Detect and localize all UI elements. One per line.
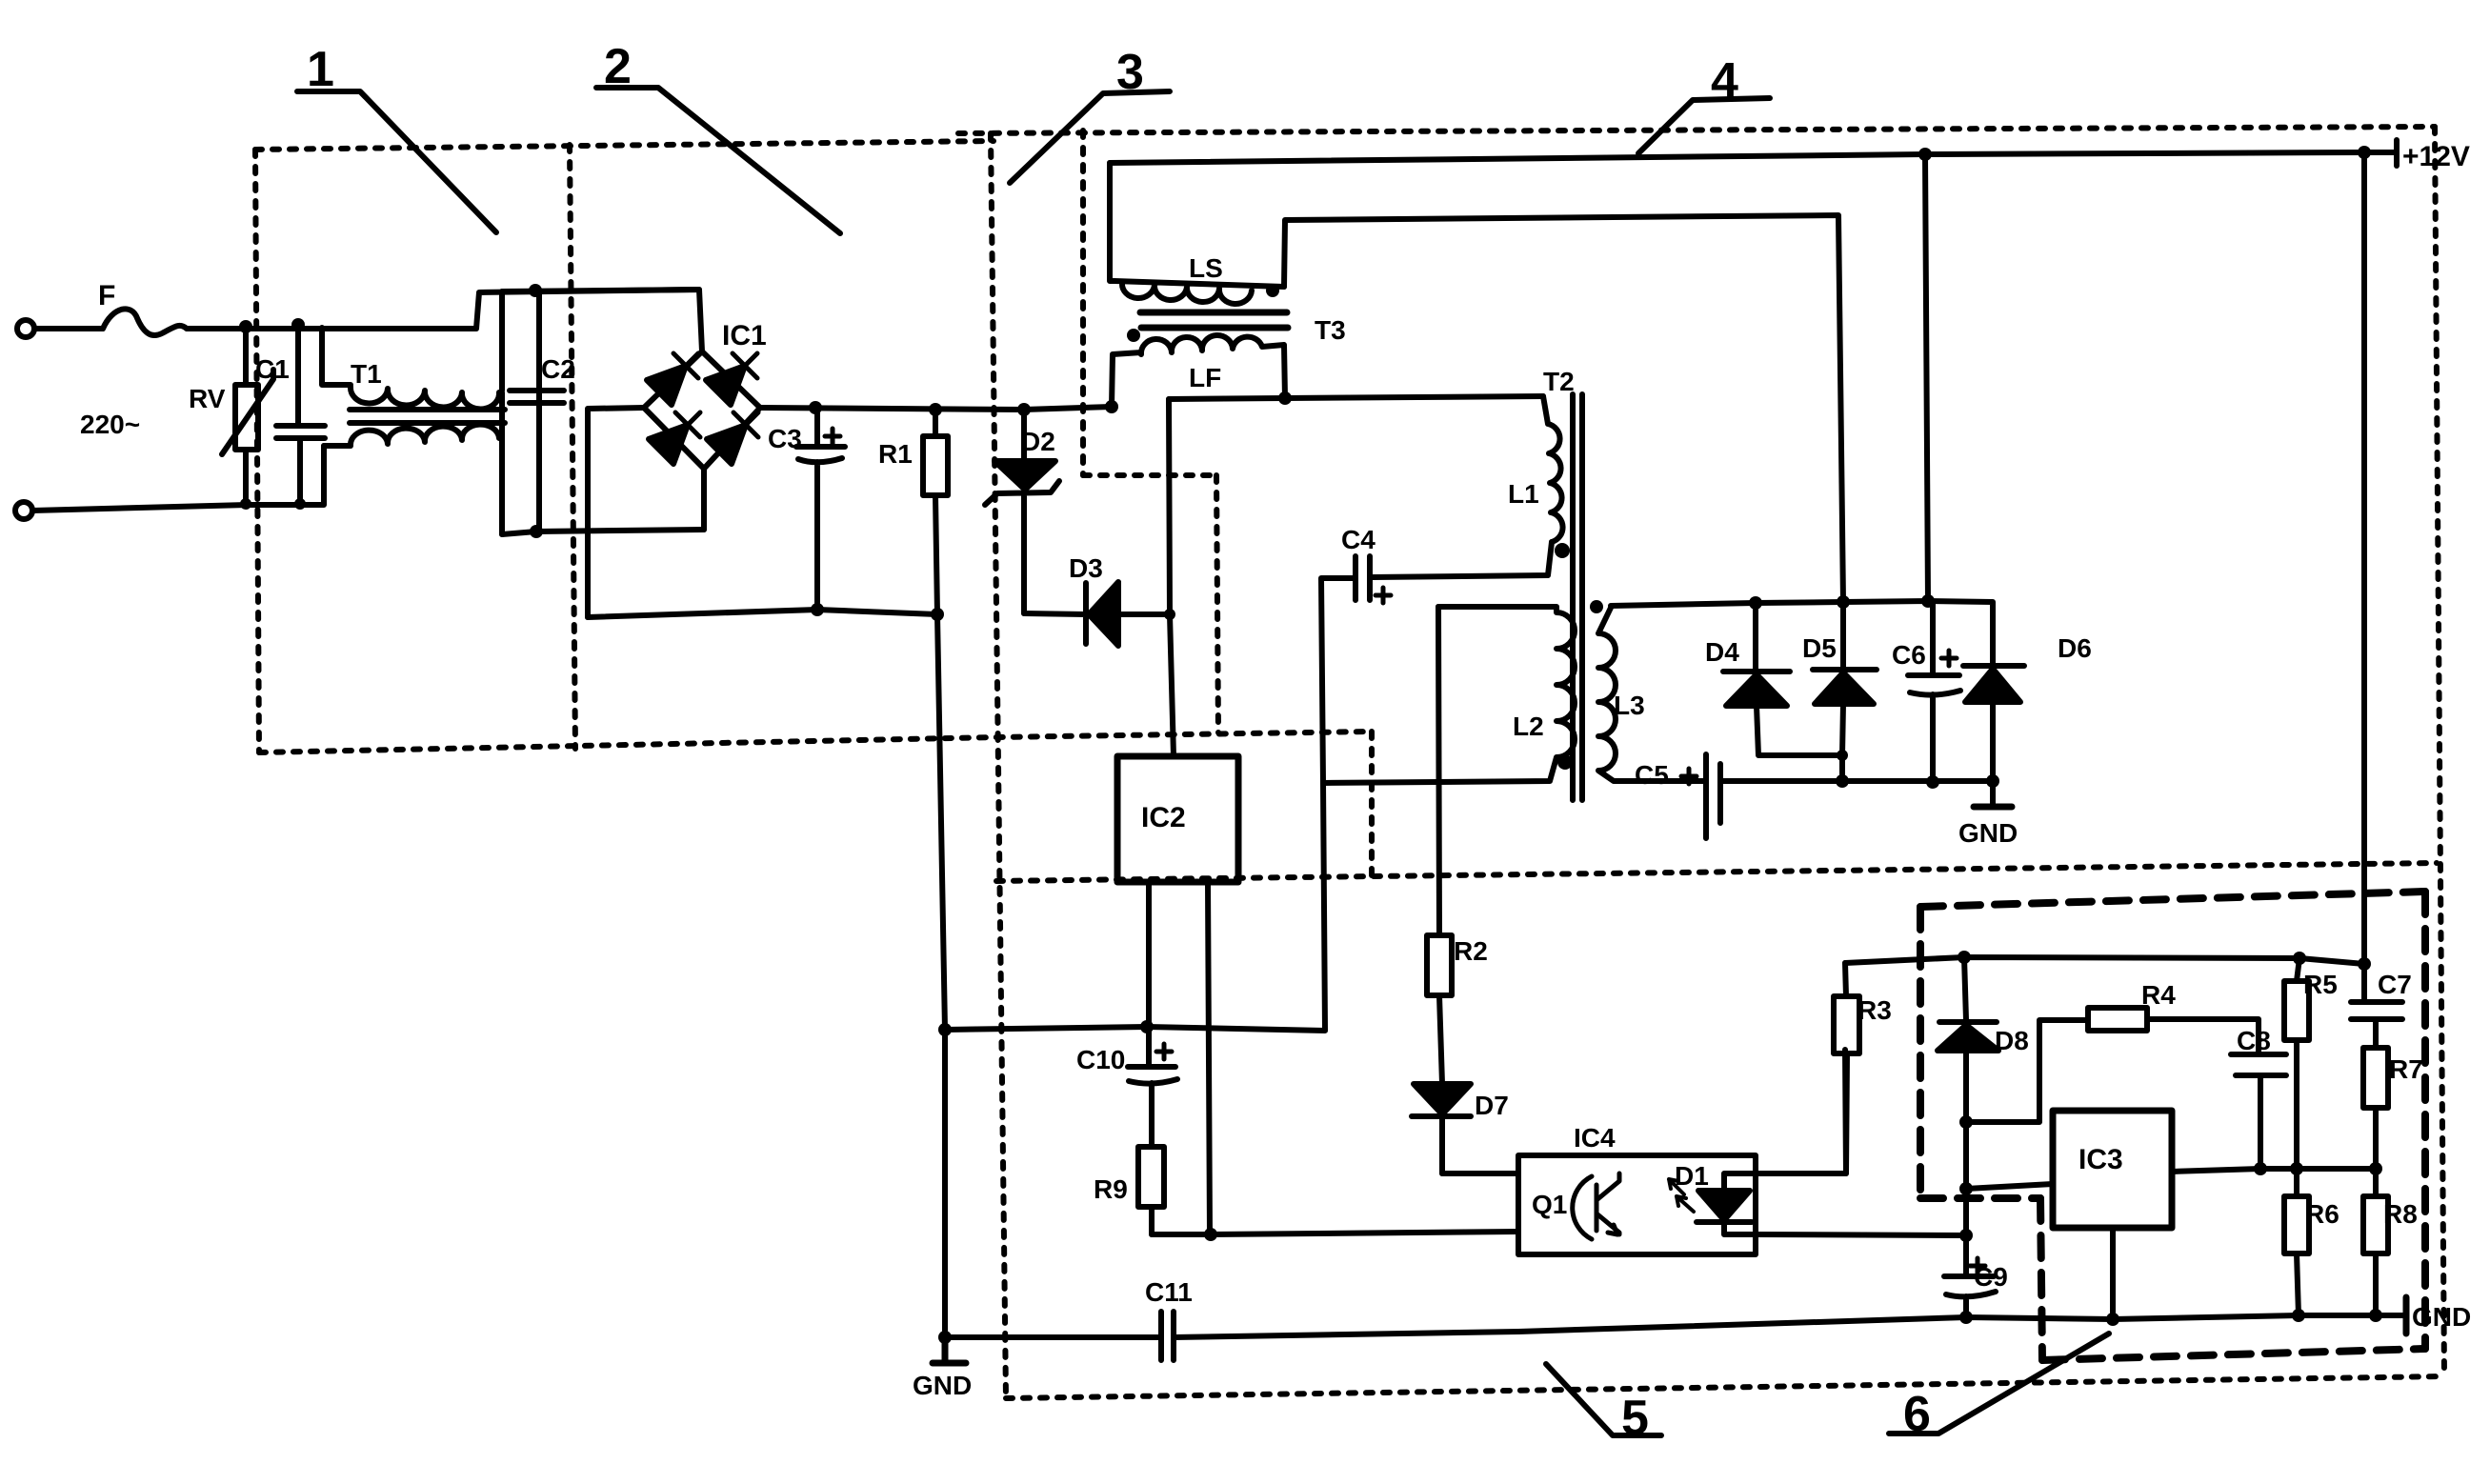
block 4 dashed staircase lower vertical [1369,732,1375,877]
input terminal top [17,320,34,337]
label 4 leader [1638,98,1770,153]
block 6 heavy dashed bottom edge [2042,1349,2425,1360]
svg-text:L2: L2 [1513,712,1544,741]
svg-text:R6: R6 [2305,1199,2339,1229]
resistor R9 [1138,1147,1164,1234]
IC3 right pin [2172,1169,2376,1172]
svg-text:C6: C6 [1892,640,1926,670]
capacitor C3 [796,408,845,610]
choke T1 bottom winding [324,425,499,446]
vertical D3/IC2 riser [1169,399,1174,756]
C9 plus sign [1970,1258,1985,1273]
node C5 D5 [1836,774,1849,788]
T3 winding LF [1112,335,1285,407]
capacitor C1 [276,325,325,504]
T3 winding LS [1110,163,1284,304]
svg-text:C8: C8 [2237,1026,2271,1055]
node GND rail C9 [1959,1311,1973,1324]
node GND rail left [938,1331,952,1344]
wire L2 top to R2 [1438,607,1439,935]
fuse F [34,309,187,335]
node bus R1 [929,403,942,416]
T2 L1 bottom lead with C4 [1372,542,1552,577]
capacitor C10 [1128,1067,1177,1147]
svg-text:220~: 220~ [80,410,140,439]
node GND rail IC3 [2106,1313,2119,1326]
C5 plus sign [1681,769,1697,784]
wire bridge bottom vertex down [701,469,707,530]
block 6 heavy dashed left edge upper [1917,907,1924,1198]
svg-text:F: F [98,280,115,311]
wire bottom input [32,446,324,511]
node D4 top [1749,596,1762,610]
svg-text:R7: R7 [2389,1054,2423,1084]
IC2 right pin riser [1208,882,1210,1234]
block 3+4 dashed top edge [958,127,2435,133]
node GND rail R6 [2292,1309,2305,1322]
node GND rail R8 [2369,1309,2382,1322]
svg-text:D2: D2 [1021,427,1055,456]
svg-text:D8: D8 [1995,1026,2029,1055]
D1 light arrows [1669,1179,1694,1212]
svg-text:+12V: +12V [2402,141,2470,172]
wire C2 bottom [502,530,704,534]
wire D1 cathode to C9 node [1756,1234,1966,1235]
block 4 dashed staircase vertical [1216,475,1218,732]
svg-text:L1: L1 [1508,479,1539,509]
node R5 R6 [2290,1162,2303,1175]
label 1 leader [297,91,496,232]
node +12V C6 tap [1918,148,1932,161]
svg-text:C1: C1 [255,354,290,384]
node C7 top [2358,957,2371,971]
svg-text:GND: GND [2412,1302,2471,1332]
svg-text:T3: T3 [1315,315,1346,345]
svg-text:4: 4 [1711,53,1738,109]
capacitor C2 [502,291,564,534]
node R9 IC2 [1204,1228,1217,1241]
resistor R4 [2088,1008,2259,1053]
label 2 leader [596,88,840,233]
svg-text:D3: D3 [1069,553,1103,583]
wire D1 anode to R3 [1756,1050,1846,1173]
block 4 dashed staircase step [1083,472,1216,478]
choke T1 top winding [322,328,499,409]
phase dot LS [1266,284,1279,297]
node D8 R4 ref [1959,1115,1973,1129]
svg-text:D4: D4 [1705,637,1739,667]
resistor R3 [1834,963,1859,1173]
node C10 top [1140,1020,1154,1033]
svg-text:L3: L3 [1614,691,1645,720]
svg-text:C3: C3 [768,424,802,453]
block 1 / block 2 dashed divider [570,145,575,749]
svg-text:R1: R1 [878,439,913,469]
svg-text:GND: GND [913,1371,972,1400]
svg-text:C4: C4 [1341,525,1376,554]
diode D7 [1414,1084,1471,1114]
svg-text:C2: C2 [541,354,575,384]
svg-text:C7: C7 [2378,970,2412,999]
svg-text:5: 5 [1621,1391,1649,1446]
feedback wire from C4 node [945,783,1325,1031]
svg-text:R4: R4 [2141,980,2176,1010]
svg-text:3: 3 [1116,45,1144,100]
svg-text:D1: D1 [1675,1161,1709,1191]
svg-text:2: 2 [604,39,632,94]
diode D5 [1815,672,1874,704]
phase dot L1 [1555,543,1570,558]
node D3 left riser [1164,609,1175,620]
label 3 leader [1010,91,1170,183]
C6 plus sign [1941,651,1957,666]
svg-text:D5: D5 [1802,633,1837,663]
wire AC2 vertical to bridge left [588,408,644,617]
svg-text:IC1: IC1 [722,320,767,351]
svg-text:T1: T1 [351,359,382,389]
block 6 heavy dashed right edge [2421,892,2429,1349]
resistor R1 [923,410,948,614]
wire D8 ref node to R4 [1966,1020,2088,1122]
C10 plus sign [1156,1044,1172,1059]
svg-text:Q1: Q1 [1532,1190,1567,1219]
IC3 bottom pin [2110,1228,2116,1319]
label 6 leader [1889,1334,2109,1434]
block 6 heavy dashed step [1920,1194,2040,1202]
svg-text:IC2: IC2 [1141,802,1186,833]
diode D6 [1965,669,2020,702]
svg-text:C5: C5 [1635,760,1669,790]
T3 core [1140,312,1288,328]
phase dot L3 [1590,600,1603,613]
node C6 top [1921,594,1935,608]
svg-text:R3: R3 [1857,995,1892,1025]
varistor RV [222,327,273,504]
block 4 dashed right edge [2435,127,2444,1376]
node bus LF right [1278,391,1292,405]
svg-text:LF: LF [1189,363,1221,392]
resistor R2 [1427,935,1452,1084]
svg-text:RV: RV [189,384,226,413]
IC3 left pin [1966,1184,2053,1189]
node rail R1 bottom [931,608,944,621]
capacitor C9 [1944,1276,1996,1317]
IC1 diode top-right [706,353,757,405]
node D8 top [1958,951,1971,964]
IC2 left pin / C10 riser [1146,882,1152,1065]
svg-text:T2: T2 [1543,367,1575,396]
node RV bottom [240,498,251,510]
resistor R7 [2363,1048,2388,1169]
block 1+2 dashed bottom edge [259,732,1372,752]
block 5 dashed bottom edge [1006,1376,2444,1398]
phase dot L2 [1557,754,1573,770]
ground symbol bottom right tick [2403,1297,2410,1334]
node input top C1 [291,318,305,331]
wire D7 to IC4 [1442,1171,1518,1176]
resistor R8 [2363,1169,2388,1315]
node input top RV [239,320,252,333]
ground symbol bottom left [933,1337,966,1363]
svg-text:1: 1 [307,42,334,97]
svg-text:R8: R8 [2383,1199,2418,1229]
+12V terminal tick [2394,140,2400,166]
block 1 dashed box left edge [255,150,259,752]
node +12V right rail [2358,146,2371,159]
optocoupler IC4 box [1518,1155,1756,1254]
input terminal bottom [15,502,32,519]
zener D2 [994,461,1055,490]
svg-text:GND: GND [1958,818,2018,848]
capacitor C6 [1908,154,1960,782]
node D1 cathode C9 [1959,1229,1973,1242]
svg-text:IC4: IC4 [1574,1123,1616,1153]
svg-text:R2: R2 [1454,936,1488,966]
LED D1 [1698,1191,1750,1220]
svg-text:D6: D6 [2058,633,2092,663]
node bus LF left [1105,400,1118,413]
node D4 D5 link [1837,750,1848,761]
block 4 bottom / block 5 top dashed edge [996,863,2437,881]
block 6 top feed wire [1845,957,2364,964]
capacitor C8 [2231,1054,2286,1169]
svg-text:C11: C11 [1145,1277,1193,1307]
wire LS to D5 riser [1284,215,1843,602]
diode D8 [1938,1025,1998,1051]
wire C2 top to bridge [502,290,699,291]
phototransistor Q1 [1573,1173,1619,1239]
T2 winding L2 [1323,607,1575,783]
node R5 top [2293,952,2306,965]
IC1 diode bottom-left [649,412,700,464]
svg-text:D7: D7 [1475,1091,1509,1120]
long left vertical to GND [937,614,945,1337]
block 4 dashed left edge upper [1080,130,1086,475]
ground symbol below D6 [1974,804,2012,811]
T2 winding L1 [1543,396,1563,542]
right +12V vertical rail [2361,152,2367,1002]
svg-text:R5: R5 [2303,970,2338,999]
node R7 R8 [2369,1162,2382,1175]
diode D4 [1726,674,1787,706]
svg-text:6: 6 [1903,1387,1931,1442]
node D5 top [1837,595,1850,609]
T2 winding L3 [1598,608,1706,781]
block 1 dashed box top edge [255,141,994,150]
bottom GND rail right [1518,1315,2406,1332]
choke T1 core [350,410,505,423]
IC1 diode bottom-right [707,412,758,464]
IC1 diode top-left [647,353,698,405]
node C1 bottom [294,498,306,510]
block 3 dashed left edge [991,133,1006,1397]
bottom rail bridge area [588,610,937,617]
node C2 top [529,284,542,297]
bridge rectifier IC1 diamond [644,351,760,469]
wire top input to C2 jog [187,290,702,351]
block 6 heavy dashed left edge lower [2040,1198,2042,1360]
svg-text:C10: C10 [1076,1045,1125,1074]
svg-text:IC3: IC3 [2078,1144,2123,1175]
diode D3 [1089,582,1118,646]
transformer T2 core [1573,394,1582,800]
node D8 IC3 pin [1959,1182,1973,1195]
node feedback left [938,1023,952,1036]
main bus B [1169,396,1543,399]
node rail C3 bottom [811,603,824,616]
C3 plus sign [825,429,840,444]
wire R9 to IC4 emitter [1152,1232,1518,1234]
label 5 leader [1546,1364,1661,1435]
node C2 bottom [530,525,543,538]
resistor R6 [2284,1169,2309,1315]
node C6 bottom [1926,775,1939,789]
node C8 IC3 [2254,1162,2267,1175]
IC3 box [2053,1111,2172,1228]
+12V top rail [1110,152,2397,163]
svg-text:C9: C9 [1974,1262,2008,1292]
node D6 bottom [1986,774,1999,788]
capacitor C4 [1321,556,1370,783]
capacitor C5 [1706,754,1993,838]
node bus D2 [1017,403,1031,416]
svg-text:LS: LS [1189,253,1223,283]
C4 plus sign [1376,588,1391,603]
block 6 heavy dashed top edge [1920,892,2425,907]
phase dot LF [1127,329,1140,342]
IC2 box [1117,756,1238,882]
main bus A bridge to LF [760,407,1112,410]
capacitor C7 [2351,1002,2402,1048]
L3 top rail to D6 [1611,601,1993,666]
bottom GND rail left with C11 [945,1312,1518,1360]
resistor R5 [2284,958,2309,1169]
node bus C3 [809,401,822,414]
svg-text:R9: R9 [1094,1174,1128,1204]
